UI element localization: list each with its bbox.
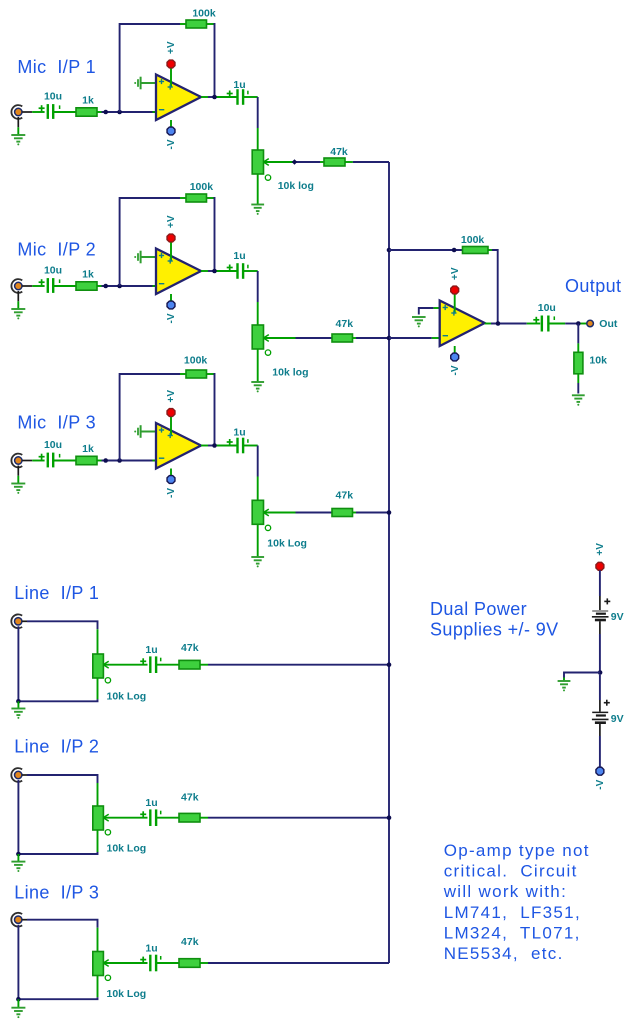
- V- power wire: [454, 346, 456, 353]
- junction (ground rail): [16, 852, 21, 857]
- potentiometer VR1 10k log: [252, 150, 269, 174]
- node Mic I/P 3 label: [17, 413, 96, 433]
- svg-text:1k: 1k: [82, 268, 94, 280]
- node Mic I/P 2 label: [17, 240, 96, 260]
- junction: [117, 284, 122, 289]
- op-amp symbol: [156, 249, 201, 295]
- resistor 100k label: [192, 7, 216, 19]
- pot value label: [107, 988, 147, 1000]
- node Line I/P 2 label: [14, 737, 99, 757]
- resistor R2c 47k (mix): [332, 334, 353, 342]
- svg-text:Line I/P 2: Line I/P 2: [14, 737, 99, 757]
- resistor 100k label (output stage): [461, 234, 485, 246]
- potentiometer VR3 10k log: [252, 500, 269, 524]
- svg-text:Output: Output: [565, 276, 621, 296]
- wire non-inverting input to ground: [419, 308, 440, 315]
- capacitor 10u label: [44, 91, 62, 103]
- svg-text:Dual Power: Dual Power: [430, 599, 527, 619]
- resistor 1k label: [82, 94, 94, 106]
- connector J3 (mic input): [11, 454, 22, 468]
- ground (op-amp + input): [134, 77, 140, 90]
- wire non-inverting input to ground: [141, 431, 156, 433]
- svg-text:-V: -V: [450, 365, 461, 375]
- wire connector to pot top: [22, 775, 97, 806]
- resistor 47k label: [330, 146, 348, 158]
- wire op-amp output: [201, 96, 237, 98]
- wire pot bottom to ground rail: [18, 678, 97, 701]
- junction: [117, 458, 122, 463]
- junction (mix bus): [387, 510, 392, 515]
- -V label (supply): [595, 779, 606, 789]
- wire pot wiper to cap: [103, 962, 147, 964]
- wire pot to ground: [257, 174, 259, 205]
- resistor R1a 1k: [76, 108, 97, 116]
- svg-text:100k: 100k: [461, 234, 485, 246]
- pot open terminal marker: [265, 525, 270, 530]
- capacitor C1b 1u: [227, 89, 248, 105]
- resistor R7 47k (mix): [179, 660, 200, 669]
- junction (mix bus): [387, 815, 392, 820]
- Out label: [599, 318, 618, 330]
- svg-text:critical. Circuit: critical. Circuit: [444, 862, 578, 881]
- svg-text:1k: 1k: [82, 94, 94, 106]
- svg-text:will work with:: will work with:: [443, 882, 567, 901]
- capacitor 1u label: [233, 250, 245, 262]
- ground (line input): [11, 862, 25, 872]
- wire cap to 47k: [156, 962, 179, 964]
- capacitor C3a 10u: [39, 453, 60, 468]
- junction (wiper): [292, 159, 298, 165]
- capacitor C7 10u (output): [533, 316, 554, 332]
- ground (mic connector): [11, 135, 25, 145]
- svg-text:10k log: 10k log: [278, 180, 314, 192]
- junction (output): [496, 321, 501, 326]
- svg-text:1u: 1u: [145, 942, 157, 954]
- wire resistor to op-amp inverting input: [97, 111, 156, 113]
- resistor R3c 47k (mix): [332, 509, 353, 517]
- node Mic I/P 1 label: [17, 57, 96, 77]
- resistor 10k label: [589, 354, 607, 366]
- potentiometer VR6 10k Log: [93, 952, 109, 976]
- junction (op-amp output): [212, 269, 217, 274]
- svg-text:47k: 47k: [181, 792, 199, 804]
- wire cap to 47k: [156, 664, 179, 666]
- wire pot wiper to cap: [103, 664, 147, 666]
- resistor R3a 1k: [76, 456, 97, 464]
- junction (op-amp output): [212, 95, 217, 100]
- potentiometer VR2 10k log: [252, 325, 269, 349]
- svg-text:10u: 10u: [44, 265, 62, 277]
- battery B2 value label: [611, 713, 624, 725]
- svg-text:100k: 100k: [184, 354, 208, 366]
- resistor 1k label: [82, 268, 94, 280]
- svg-text:Out: Out: [599, 318, 618, 330]
- resistor 47k label: [336, 490, 354, 502]
- pot open terminal marker: [105, 830, 110, 835]
- svg-text:Line I/P 3: Line I/P 3: [14, 883, 99, 903]
- wire cap to resistor: [53, 460, 76, 462]
- capacitor 10u label: [44, 265, 62, 277]
- wire op-amp output: [201, 445, 237, 447]
- ground (line input): [11, 709, 25, 719]
- wire 47k to mix bus: [353, 512, 390, 514]
- svg-text:-V: -V: [166, 313, 177, 323]
- wire connector shield down: [17, 925, 19, 1000]
- wire op-amp output to cap: [485, 323, 541, 325]
- svg-text:100k: 100k: [190, 181, 214, 193]
- wire battery 2 to -V: [599, 724, 601, 767]
- wire connector shield down: [17, 626, 19, 701]
- wire mix bus (vertical): [388, 162, 390, 963]
- wire connector leads: [18, 286, 44, 309]
- wire to ground: [17, 701, 19, 708]
- wire bus to inverting input: [389, 337, 440, 339]
- note: op-amp types: [443, 841, 590, 963]
- wire cap to volume pot: [243, 97, 258, 150]
- wire connector to pot top: [22, 621, 97, 654]
- svg-text:+V: +V: [450, 267, 461, 280]
- wire out node to 10k: [577, 324, 579, 353]
- svg-text:47k: 47k: [181, 936, 199, 948]
- wire 47k to mix bus: [200, 817, 389, 819]
- V- blue terminal: [451, 353, 459, 361]
- junction (out node): [576, 321, 581, 326]
- ground (output load): [572, 395, 585, 405]
- resistor R9 47k (mix): [179, 959, 200, 968]
- V- power wire: [170, 469, 172, 476]
- op-amp power +V wire: [454, 294, 456, 313]
- junction: [103, 110, 108, 115]
- wire centre tap to ground: [564, 673, 600, 681]
- wire battery 1 to centre tap: [599, 621, 601, 672]
- svg-text:10u: 10u: [44, 439, 62, 451]
- wire connector leads: [18, 461, 44, 484]
- ground (op-amp + input): [134, 251, 140, 264]
- capacitor 1u label: [145, 797, 157, 809]
- potentiometer VR5 10k Log: [93, 806, 109, 830]
- svg-text:-V: -V: [595, 779, 606, 789]
- ground (mic connector): [11, 309, 25, 319]
- V- blue terminal: [167, 476, 175, 484]
- connector J2 (mic input): [11, 279, 22, 293]
- wire resistor to op-amp inverting input: [97, 285, 156, 287]
- svg-text:Supplies +/- 9V: Supplies +/- 9V: [430, 620, 559, 640]
- connector J1 (mic input): [11, 105, 22, 119]
- wire pot wiper to cap: [103, 817, 147, 819]
- svg-text:1u: 1u: [145, 797, 157, 809]
- resistor R1b 100k (feedback): [186, 20, 207, 28]
- wire feedback loop: [120, 374, 215, 461]
- svg-text:1u: 1u: [145, 644, 157, 656]
- capacitor 1u label: [145, 942, 157, 954]
- wire cap to volume pot: [243, 446, 258, 501]
- capacitor C4 1u: [140, 656, 161, 673]
- wire pot to ground: [257, 349, 259, 382]
- wire cap to out terminal: [548, 323, 587, 325]
- svg-text:LM324, TL071,: LM324, TL071,: [444, 923, 581, 942]
- svg-text:+V: +V: [166, 390, 177, 403]
- op-amp symbol: [156, 75, 201, 121]
- pot open terminal marker: [105, 975, 110, 980]
- V- blue terminal (supply): [596, 767, 604, 775]
- svg-text:47k: 47k: [330, 146, 348, 158]
- resistor 1k label: [82, 443, 94, 455]
- svg-text:Op-amp type not: Op-amp type not: [444, 841, 590, 860]
- wire bus to output op-amp feedback rail: [389, 249, 463, 251]
- svg-text:Mic I/P 1: Mic I/P 1: [17, 57, 96, 77]
- svg-text:10k log: 10k log: [272, 366, 308, 378]
- svg-text:10k Log: 10k Log: [107, 988, 147, 1000]
- connector J4 (line input): [11, 614, 22, 628]
- V- power wire: [170, 294, 172, 301]
- svg-text:LM741, LF351,: LM741, LF351,: [444, 903, 581, 922]
- capacitor 1u label: [233, 79, 245, 91]
- pot open terminal marker: [265, 175, 270, 180]
- ground (line input): [11, 1008, 25, 1018]
- V+ red terminal: [167, 409, 175, 417]
- op-amp power +V wire: [170, 242, 172, 261]
- wire 10k to ground: [577, 374, 579, 394]
- capacitor 1u label: [233, 427, 245, 439]
- wire pot wiper to 47k: [264, 337, 333, 339]
- resistor 47k label: [181, 642, 199, 654]
- battery B1 value label: [611, 611, 624, 623]
- wire to ground: [17, 999, 19, 1008]
- junction (ground rail): [16, 997, 21, 1002]
- op-amp symbol: [440, 301, 485, 347]
- svg-text:+V: +V: [595, 543, 606, 556]
- junction: [117, 110, 122, 115]
- wire pot wiper to 47k: [264, 512, 333, 514]
- wire 47k to mix bus: [353, 337, 390, 339]
- svg-text:10k Log: 10k Log: [107, 691, 147, 703]
- capacitor C3b 1u: [227, 438, 248, 454]
- wire pot bottom to ground rail: [18, 830, 97, 854]
- V- blue terminal: [167, 301, 175, 309]
- ground (supply centre): [558, 681, 571, 691]
- resistor 47k label: [336, 318, 354, 330]
- battery B1 9V: [592, 598, 610, 620]
- svg-text:-V: -V: [166, 139, 177, 149]
- svg-text:Mic I/P 2: Mic I/P 2: [17, 240, 96, 260]
- op-amp symbol: [156, 423, 201, 469]
- V+ red terminal (supply): [596, 562, 604, 570]
- junction (mix bus): [387, 248, 392, 253]
- pot value label: [278, 180, 314, 192]
- svg-text:10k: 10k: [589, 354, 607, 366]
- ground (mic connector): [11, 484, 25, 494]
- capacitor 1u label: [145, 644, 157, 656]
- resistor R3b 100k (feedback): [186, 370, 207, 378]
- junction (ground rail): [16, 699, 21, 704]
- wire non-inverting input to ground: [141, 82, 156, 84]
- ground (pot): [251, 557, 264, 567]
- note: dual power supplies: [430, 599, 559, 640]
- wire 47k to mix bus: [200, 962, 389, 964]
- resistor 47k label: [181, 792, 199, 804]
- junction (mix bus): [387, 662, 392, 667]
- svg-text:Mic I/P 3: Mic I/P 3: [17, 413, 96, 433]
- pot open terminal marker: [105, 678, 110, 683]
- resistor 100k label: [184, 354, 208, 366]
- pot value label: [107, 843, 147, 855]
- V- power wire: [170, 120, 172, 127]
- wire 47k to mix bus: [345, 161, 389, 163]
- svg-text:Line I/P 1: Line I/P 1: [14, 583, 99, 603]
- wire resistor to op-amp inverting input: [97, 460, 156, 462]
- wire cap to 47k: [156, 817, 179, 819]
- junction: [103, 284, 108, 289]
- resistor R10 100k (output feedback): [463, 247, 489, 254]
- node Line I/P 3 label: [14, 883, 99, 903]
- svg-text:47k: 47k: [336, 318, 354, 330]
- junction (op-amp output): [212, 443, 217, 448]
- wire +V to battery 1: [599, 570, 601, 610]
- op-amp power +V wire: [170, 68, 172, 87]
- ground (pot): [251, 205, 264, 215]
- svg-text:9V: 9V: [611, 713, 624, 725]
- resistor R2a 1k: [76, 282, 97, 290]
- wire pot to ground: [257, 524, 259, 557]
- V+ red terminal: [167, 60, 175, 68]
- V+ red terminal: [451, 286, 459, 294]
- node Line I/P 1 label: [14, 583, 99, 603]
- wire centre tap to battery 2: [599, 675, 601, 712]
- svg-text:NE5534, etc.: NE5534, etc.: [444, 944, 564, 963]
- svg-text:1k: 1k: [82, 443, 94, 455]
- resistor R2b 100k (feedback): [186, 194, 207, 202]
- resistor R11 10k (output load): [574, 352, 583, 374]
- capacitor C6 1u: [140, 955, 161, 972]
- V- blue terminal: [167, 127, 175, 135]
- capacitor 10u label (output): [538, 302, 556, 314]
- svg-text:1u: 1u: [233, 427, 245, 439]
- pot value label: [267, 538, 307, 550]
- svg-text:1u: 1u: [233, 250, 245, 262]
- svg-text:10u: 10u: [44, 91, 62, 103]
- resistor 47k label: [181, 936, 199, 948]
- wire cap to resistor: [53, 111, 76, 113]
- svg-text:47k: 47k: [336, 490, 354, 502]
- resistor R8 47k (mix): [179, 813, 200, 822]
- svg-text:9V: 9V: [611, 611, 624, 623]
- wire 47k to mix bus: [200, 664, 389, 666]
- svg-text:10u: 10u: [538, 302, 556, 314]
- junction (mix bus): [387, 336, 392, 341]
- svg-text:10k Log: 10k Log: [267, 538, 307, 550]
- wire pot bottom to ground rail: [18, 976, 97, 1000]
- pot open terminal marker: [265, 350, 270, 355]
- capacitor C2b 1u: [227, 263, 248, 279]
- wire connector shield down: [17, 780, 19, 854]
- capacitor 10u label: [44, 439, 62, 451]
- junction: [103, 458, 108, 463]
- wire cap to resistor: [53, 285, 76, 287]
- terminal Out: [587, 320, 594, 327]
- svg-text:+V: +V: [166, 215, 177, 228]
- +V label (supply): [595, 543, 606, 556]
- wire to ground: [17, 854, 19, 862]
- resistor 100k label: [190, 181, 214, 193]
- ground (output op-amp + input): [412, 317, 426, 327]
- connector J5 (line input): [11, 768, 22, 782]
- junction: [452, 248, 457, 253]
- capacitor C2a 10u: [39, 278, 60, 293]
- wire connector to pot top: [22, 920, 97, 952]
- resistor R1c 47k (mix): [324, 158, 345, 166]
- svg-text:10k Log: 10k Log: [107, 843, 147, 855]
- junction (centre tap): [598, 670, 603, 675]
- wire cap to volume pot: [243, 271, 258, 325]
- V+ red terminal: [167, 234, 175, 242]
- ground (op-amp + input): [134, 425, 140, 438]
- svg-text:+V: +V: [166, 41, 177, 54]
- pot value label: [272, 366, 308, 378]
- svg-text:100k: 100k: [192, 7, 216, 19]
- wire op-amp output: [201, 270, 237, 272]
- wire non-inverting input to ground: [141, 256, 156, 258]
- potentiometer VR4 10k Log: [93, 654, 109, 678]
- capacitor C5 1u: [140, 809, 161, 826]
- wire feedback loop: [120, 198, 215, 286]
- capacitor C1a 10u: [39, 104, 60, 119]
- wire connector leads: [18, 112, 44, 135]
- node Output label: [565, 276, 621, 296]
- pot value label: [107, 691, 147, 703]
- ground (pot): [251, 382, 264, 392]
- svg-text:-V: -V: [166, 488, 177, 498]
- op-amp power +V wire: [170, 417, 172, 436]
- wire feedback right leg: [488, 250, 498, 324]
- wire pot wiper to 47k: [264, 161, 325, 163]
- connector J6 (line input): [11, 913, 22, 927]
- wire feedback loop: [120, 24, 215, 112]
- battery B2 9V: [592, 700, 610, 723]
- svg-text:47k: 47k: [181, 642, 199, 654]
